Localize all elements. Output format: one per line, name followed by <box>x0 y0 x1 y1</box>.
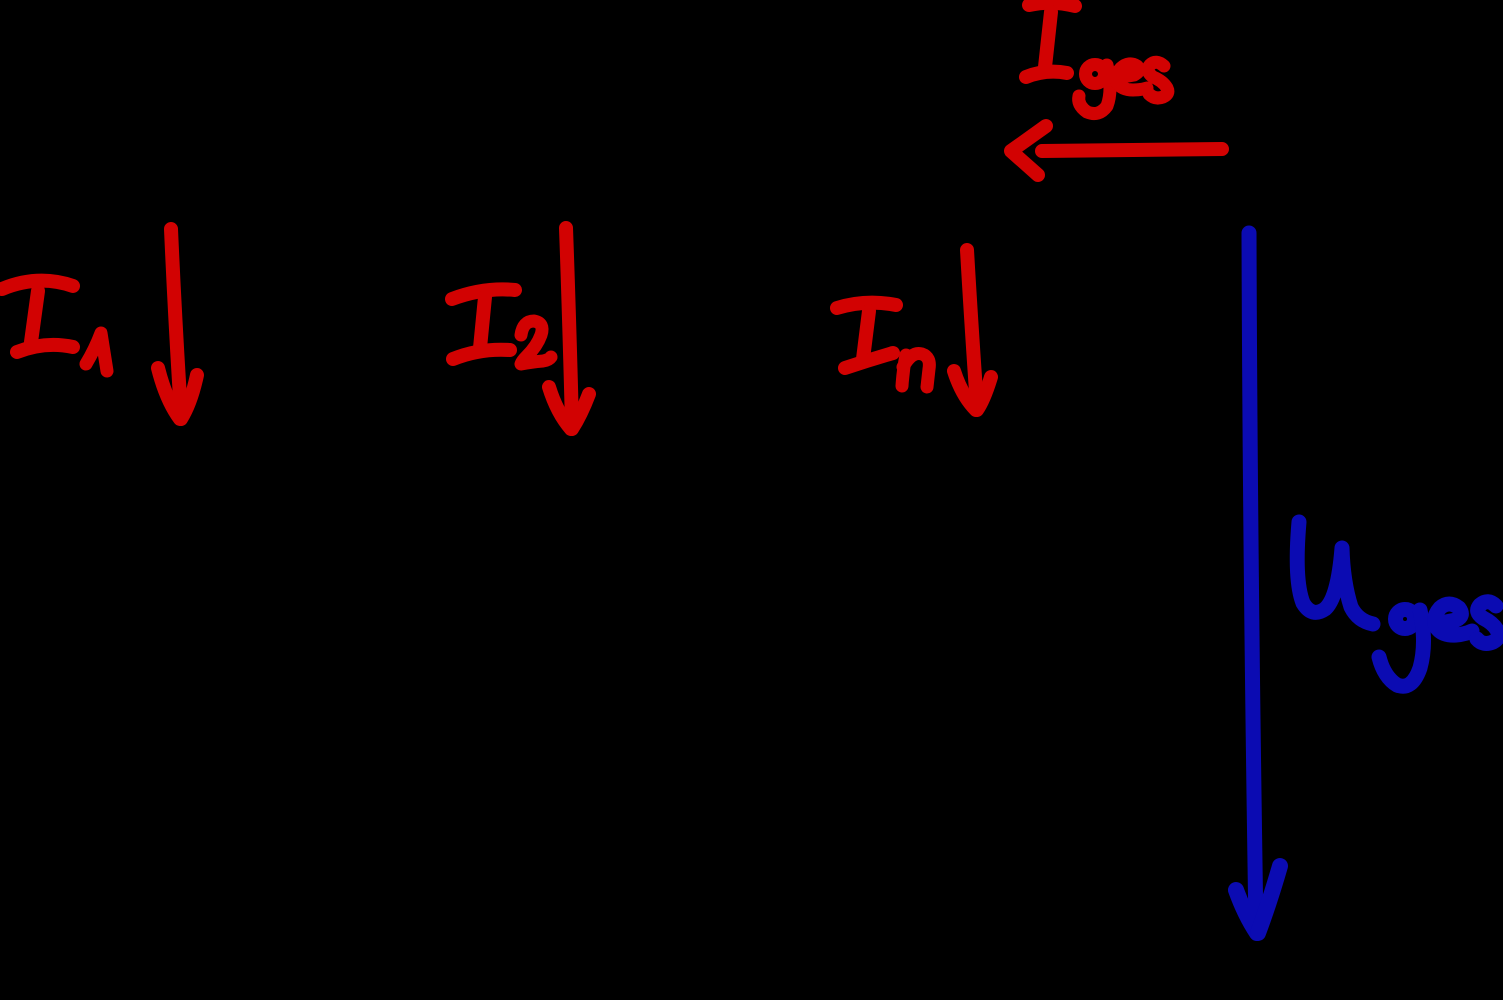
label Iges <box>1026 3 1168 114</box>
resistor R1 <box>215 190 285 810</box>
arrow Uges (total voltage across source branch) <box>1236 233 1280 933</box>
arrow I2 (current into R2 branch) <box>549 228 589 429</box>
resistor Rn <box>1015 190 1085 810</box>
arrow Iges (total current along top wire) <box>1011 126 1222 175</box>
arrow I1 (current into R1 branch) <box>158 229 197 419</box>
label I2 <box>452 289 551 364</box>
label I1 <box>2 281 107 371</box>
arrow In (current into Rn branch) <box>954 250 991 410</box>
label Uges <box>1297 522 1498 686</box>
label In <box>837 303 929 387</box>
wire bottom horizontal net <box>100 807 1250 813</box>
wire right branch (source branch) <box>1247 190 1253 810</box>
wire top horizontal net <box>100 187 1250 193</box>
resistor R2 <box>605 190 675 810</box>
